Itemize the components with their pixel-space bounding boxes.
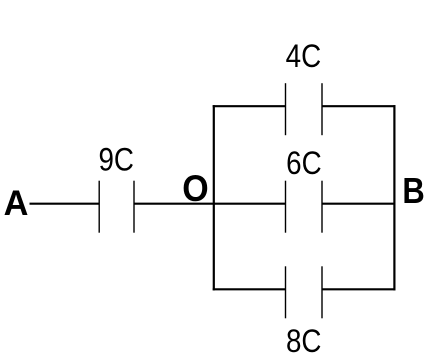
label 8C: [286, 323, 322, 356]
node O: [182, 168, 208, 209]
node A: [4, 183, 29, 223]
svg-text:8C: 8C: [286, 323, 322, 356]
capacitor C3 value 6C: [286, 181, 323, 233]
label 6C: [286, 145, 322, 181]
wire C1 to node O: [134, 203, 214, 205]
wire bottom branch right: [322, 288, 396, 290]
wire bottom branch left: [213, 288, 286, 290]
wire right bus: [393, 105, 395, 290]
label 4C: [286, 38, 322, 74]
wire middle branch right: [322, 203, 394, 205]
wire A to C1: [30, 203, 100, 205]
svg-text:O: O: [182, 168, 208, 209]
wire top branch left: [213, 105, 286, 107]
svg-text:B: B: [402, 170, 424, 211]
capacitor C1 value 9C: [99, 181, 134, 233]
svg-text:4C: 4C: [286, 38, 322, 74]
wire middle branch left: [214, 203, 286, 205]
svg-text:6C: 6C: [286, 145, 322, 181]
wire top branch right: [322, 105, 396, 107]
label 9C: [98, 142, 134, 178]
svg-text:A: A: [4, 183, 29, 223]
capacitor C4 value 8C: [286, 266, 323, 318]
capacitor C2 value 4C: [286, 83, 323, 135]
node B: [402, 170, 424, 211]
svg-text:9C: 9C: [98, 142, 134, 178]
wire left bus: [213, 105, 215, 290]
